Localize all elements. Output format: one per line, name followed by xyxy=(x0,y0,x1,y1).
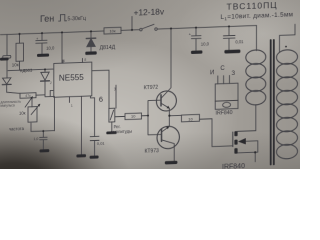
svg-text:10: 10 xyxy=(131,114,136,119)
svg-text:IRF840: IRF840 xyxy=(216,110,233,117)
svg-text:КД503: КД503 xyxy=(20,68,33,73)
svg-text:10к: 10к xyxy=(12,62,19,67)
svg-text:2: 2 xyxy=(50,81,52,85)
svg-text:И: И xyxy=(210,70,214,76)
svg-text:С: С xyxy=(220,66,225,72)
svg-text:0,01: 0,01 xyxy=(235,39,244,44)
svg-text:4: 4 xyxy=(63,59,65,63)
svg-text:Д814Д: Д814Д xyxy=(100,45,116,52)
svg-text:6: 6 xyxy=(99,95,103,104)
svg-text:NE555: NE555 xyxy=(59,73,84,83)
svg-text:Ген: Ген xyxy=(40,13,54,24)
svg-text:L1=10вит. диам.-1.5мм: L1=10вит. диам.-1.5мм xyxy=(221,11,294,21)
svg-text:амплитуды: амплитуды xyxy=(111,129,133,135)
svg-text:+12-18v: +12-18v xyxy=(134,6,165,17)
svg-text:КТ973: КТ973 xyxy=(145,148,160,155)
svg-text:IRF840: IRF840 xyxy=(222,163,245,169)
svg-text:З: З xyxy=(232,71,236,77)
svg-text:КТ972: КТ972 xyxy=(144,85,159,92)
svg-text:частота: частота xyxy=(9,126,25,132)
svg-text:1,0: 1,0 xyxy=(34,137,39,141)
svg-text:10,0: 10,0 xyxy=(46,45,55,50)
svg-text:47к: 47к xyxy=(25,94,31,98)
svg-text:10: 10 xyxy=(188,116,193,121)
svg-text:10к: 10к xyxy=(19,110,26,115)
svg-text:0,01: 0,01 xyxy=(97,141,106,146)
svg-text:импульса: импульса xyxy=(1,103,15,108)
svg-text:10,0: 10,0 xyxy=(201,42,210,47)
svg-text:ТВС110ПЦ: ТВС110ПЦ xyxy=(227,0,278,12)
svg-text:1: 1 xyxy=(71,104,73,108)
svg-text:10к: 10к xyxy=(109,28,115,33)
svg-text:5-30кГц: 5-30кГц xyxy=(68,16,86,23)
svg-text:8: 8 xyxy=(84,58,86,62)
